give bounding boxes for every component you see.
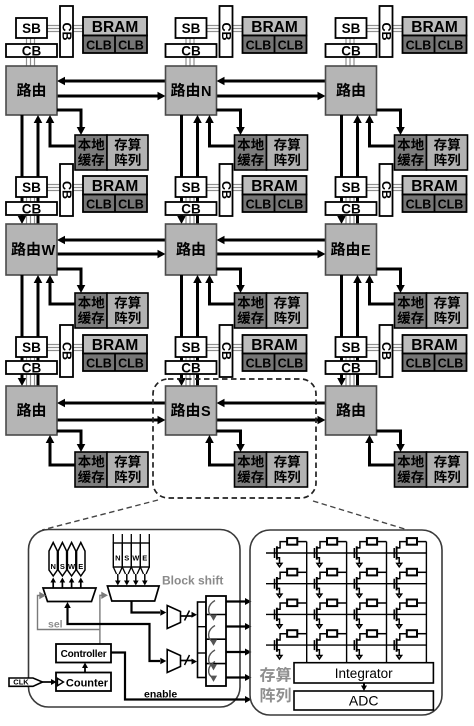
svg-text:CLK: CLK: [13, 678, 29, 687]
svg-text:Controller: Controller: [61, 649, 107, 660]
connection box CB vertical col1 row3: [60, 325, 74, 377]
wire mux1 to port W: [69, 578, 75, 588]
CIM array block col2 row3: [267, 452, 308, 487]
wire shift register output arrow: [226, 674, 252, 681]
CIM array block col2 row2: [267, 293, 308, 328]
svg-text:CB: CB: [60, 22, 74, 40]
CLB blocks col1 row2: [83, 195, 147, 213]
BRAM block col2 row1: [243, 17, 307, 36]
connection box CB horizontal col3 row1: [326, 44, 377, 59]
CIM array block col3 row2: [427, 293, 468, 328]
wire cache-to-router col1 row2: [46, 275, 75, 304]
switch box SB col3 row3: [336, 337, 367, 357]
svg-text:CB: CB: [341, 44, 361, 59]
wire mux1 to port N: [50, 578, 56, 588]
RRAM resistor R33: [367, 600, 387, 607]
CLB blocks col3 row3: [403, 354, 467, 372]
connection box CB vertical col2 row1: [219, 6, 233, 57]
wire shift register output arrow: [226, 649, 252, 656]
connection box CB horizontal col3 row3: [326, 361, 377, 376]
svg-text:CB: CB: [379, 342, 393, 360]
wire vertical link col1 row2 x+22 (down into router): [18, 275, 27, 386]
RRAM resistor R13: [367, 538, 387, 545]
svg-text:BRAM: BRAM: [92, 337, 139, 354]
svg-text:BRAM: BRAM: [92, 19, 139, 36]
svg-text:CB: CB: [341, 202, 361, 217]
switch box SB col1 row3: [16, 337, 47, 357]
wire cache-to-router col3 row2: [365, 275, 394, 304]
wire vertical link col1 row1 x+22 (down into router): [18, 115, 27, 224]
wire mux B to shift register (with bus slash): [181, 655, 198, 665]
svg-text:W: W: [132, 554, 140, 563]
CLB blocks col2 row2: [243, 195, 307, 213]
wire vertical link col3 row1 x+38 (up into router above): [353, 115, 362, 224]
svg-text:CLB: CLB: [406, 39, 432, 53]
dashed highlight box around router S tile: [153, 379, 316, 498]
svg-text:E: E: [361, 243, 371, 259]
svg-text:CLB: CLB: [246, 39, 272, 53]
shift curved arrows: [209, 601, 216, 681]
connection box CB vertical col2 row2: [219, 164, 233, 216]
svg-text:BRAM: BRAM: [251, 178, 298, 195]
switch box SB col1 row1: [16, 18, 47, 38]
wire mux A to shift register (with bus slash): [181, 611, 198, 621]
svg-text:CB: CB: [219, 181, 233, 199]
svg-text:BRAM: BRAM: [411, 19, 458, 36]
local cache block col2 row2: [235, 293, 267, 328]
wire router-router right arrow row2: [57, 250, 166, 259]
svg-text:CB: CB: [22, 361, 42, 376]
wire bundle SB-CB-router col2 row2: [186, 185, 243, 225]
svg-text:enable: enable: [144, 689, 177, 701]
RRAM resistor R21: [287, 569, 307, 576]
connection box CB horizontal col2 row1: [166, 44, 217, 59]
svg-text:CB: CB: [379, 22, 393, 40]
svg-text:CB: CB: [219, 22, 233, 40]
transistor Q41: [275, 634, 288, 659]
CLB blocks col2 row1: [243, 36, 307, 54]
shift register input column: [198, 602, 207, 678]
wire counter to controller: [82, 663, 88, 673]
CIM array block col1 row3: [107, 452, 148, 487]
svg-text:CLB: CLB: [278, 357, 304, 371]
output port E (pentagon): [77, 543, 85, 577]
counter box: [56, 673, 111, 692]
transistor Q42: [314, 634, 327, 659]
wire integrator to ADC: [361, 683, 367, 691]
transistor Q21: [275, 572, 288, 597]
svg-text:SB: SB: [342, 21, 361, 36]
output port N (pentagon): [49, 543, 57, 577]
wire vertical link col1 row1 x+38 (up into router above): [34, 115, 43, 224]
switch box SB col2 row2: [176, 177, 207, 197]
transistor Q33: [354, 603, 367, 628]
svg-text:S: S: [124, 554, 129, 563]
transistor Q12: [314, 542, 327, 567]
svg-text:CLB: CLB: [86, 357, 112, 371]
transistor Q13: [354, 542, 367, 567]
svg-text:CLB: CLB: [438, 39, 464, 53]
connection box CB vertical col3 row1: [379, 6, 393, 57]
svg-text:CLB: CLB: [118, 39, 144, 53]
RRAM resistor R41: [287, 630, 307, 637]
svg-text:CB: CB: [22, 202, 42, 217]
wire vertical link col2 row1 x+22 (down into router): [177, 115, 186, 224]
transistor Q22: [314, 572, 327, 597]
svg-text:CB: CB: [60, 342, 74, 360]
input port S (box): [122, 543, 131, 567]
svg-text:BRAM: BRAM: [92, 178, 139, 195]
CLB blocks col3 row1: [403, 36, 467, 54]
input port W (box): [131, 543, 140, 567]
svg-text:SB: SB: [22, 340, 41, 355]
svg-text:SB: SB: [342, 340, 361, 355]
wire cache-to-router col2 row1: [205, 115, 234, 146]
svg-text:CB: CB: [379, 181, 393, 199]
wire bundle SB-CB-router col2 row3: [186, 345, 243, 387]
switch box SB col2 row1: [176, 18, 207, 38]
router 路由 col2 row2: [166, 224, 217, 275]
local cache block col1 row1: [75, 135, 107, 170]
svg-text:CB: CB: [181, 361, 201, 376]
connection box CB vertical col3 row2: [379, 164, 393, 216]
switch box SB col3 row1: [336, 18, 367, 38]
wire vertical link col2 row2 x+38 (up into router above): [193, 275, 202, 386]
router 路由 col1 row1: [6, 66, 57, 115]
svg-text:CB: CB: [219, 342, 233, 360]
BRAM block col2 row3: [243, 335, 307, 354]
svg-text:W: W: [68, 562, 76, 571]
RRAM resistor R22: [327, 569, 347, 576]
router-S internal detail box (left): [29, 530, 241, 708]
BRAM block col3 row1: [403, 17, 467, 36]
RRAM resistor R23: [367, 569, 387, 576]
integrator box: [294, 663, 433, 683]
RRAM resistor R14: [407, 538, 427, 545]
dashed expansion line right: [313, 501, 408, 530]
svg-text:Counter: Counter: [66, 677, 109, 689]
svg-text:CLB: CLB: [406, 198, 432, 212]
output port W (pentagon): [67, 543, 76, 577]
wire router-to-cache col2 row2: [217, 269, 245, 293]
connection box CB horizontal col2 row2: [166, 202, 217, 217]
switch box SB col1 row2: [16, 177, 47, 197]
router 路由W col1 row2: [6, 224, 57, 275]
wire vertical link col3 row2 x+22 (down into router): [337, 275, 346, 386]
CIM array block col3 row3: [427, 452, 468, 487]
BRAM block col1 row1: [83, 17, 147, 36]
wire cache-to-router col1 row3: [46, 435, 75, 465]
router 路由S col2 row3: [166, 386, 217, 435]
CLB blocks col1 row1: [83, 36, 147, 54]
svg-text:E: E: [142, 554, 147, 563]
input bus comb lines: [113, 534, 149, 543]
connection box CB horizontal col1 row1: [6, 44, 57, 59]
svg-text:CLB: CLB: [438, 198, 464, 212]
wire router-router left arrow row1: [217, 77, 326, 86]
svg-text:N: N: [115, 554, 120, 563]
svg-text:ADC: ADC: [349, 693, 379, 709]
wire cache-to-router col1 row1: [46, 115, 75, 146]
wire router-to-cache col1 row3: [57, 431, 85, 452]
funnel and arrow into mux2 from N: [113, 567, 122, 586]
svg-text:CLB: CLB: [86, 39, 112, 53]
local cache block col2 row1: [235, 135, 267, 170]
RRAM resistor R24: [407, 569, 427, 576]
wire CLK to counter: [43, 679, 57, 685]
transistor Q14: [394, 542, 407, 567]
wire sel net (gray): [38, 593, 107, 644]
router 路由E col3 row2: [326, 224, 377, 275]
bit lines (columns): [307, 542, 427, 663]
local cache block col3 row2: [395, 293, 427, 328]
svg-text:CLB: CLB: [246, 198, 272, 212]
funnel and arrow into mux2 from W: [131, 567, 140, 586]
svg-text:BRAM: BRAM: [411, 178, 458, 195]
wire router-router left arrow row2: [57, 236, 166, 245]
output mux U1 (trapezoid): [43, 588, 96, 602]
RRAM resistor R12: [327, 538, 347, 545]
svg-text:N: N: [201, 84, 211, 100]
CIM array block col1 row1: [107, 135, 148, 170]
wire router-router right arrow row1: [217, 92, 326, 101]
wire vertical link col1 row2 x+38 (up into router above): [34, 275, 43, 386]
svg-text:CLB: CLB: [438, 357, 464, 371]
CLK tag: [9, 678, 43, 687]
router 路由 col1 row3: [6, 386, 57, 435]
svg-text:Block shift: Block shift: [162, 574, 223, 588]
wire enable net: [111, 653, 252, 704]
RRAM resistor R11: [287, 538, 307, 545]
wire router-to-cache col3 row1: [377, 110, 405, 135]
transistor Q11: [275, 542, 288, 567]
wire router-router left arrow row3: [57, 399, 166, 408]
wire vertical link col3 row2 x+38 (up into router above): [353, 275, 362, 386]
CIM array detail box (right): [250, 530, 442, 715]
connection box CB vertical col2 row3: [219, 325, 233, 377]
RRAM resistor R31: [287, 600, 307, 607]
wire router-router right arrow row3: [57, 416, 166, 425]
CLB blocks col1 row3: [83, 354, 147, 372]
svg-text:CB: CB: [22, 44, 42, 59]
connection box CB horizontal col3 row2: [326, 202, 377, 217]
wire vertical link col3 row1 x+22 (down into router): [337, 115, 346, 224]
controller box: [56, 644, 111, 663]
wire router-router left arrow row2: [217, 236, 326, 245]
BRAM block col3 row2: [403, 176, 467, 195]
BRAM block col1 row2: [83, 176, 147, 195]
connection box CB horizontal col2 row3: [166, 361, 217, 376]
connection box CB vertical col3 row3: [379, 325, 393, 377]
local cache block col2 row3: [235, 452, 267, 487]
wire input-mux output to shift mux A: [132, 601, 167, 616]
transistor Q43: [354, 634, 367, 659]
input port E (box): [140, 543, 149, 567]
router 路由N col2 row1: [166, 66, 217, 115]
wire bundle SB-CB-router col1 row1: [27, 26, 84, 67]
svg-text:CLB: CLB: [118, 198, 144, 212]
CIM array block col2 row1: [267, 135, 308, 170]
svg-text:SB: SB: [182, 180, 201, 195]
svg-text:BRAM: BRAM: [251, 337, 298, 354]
wire bundle SB-CB-router col3 row3: [346, 345, 403, 387]
wire bundle SB-CB-router col1 row3: [27, 345, 84, 387]
wire vertical link col2 row1 x+38 (up into router above): [193, 115, 202, 224]
svg-text:CLB: CLB: [278, 198, 304, 212]
CIM array block col3 row1: [427, 135, 468, 170]
local cache block col1 row3: [75, 452, 107, 487]
wire router-router left arrow row3: [217, 399, 326, 408]
svg-text:S: S: [60, 562, 65, 571]
svg-text:CB: CB: [181, 44, 201, 59]
BRAM block col1 row3: [83, 335, 147, 354]
wire router-to-cache col2 row3: [217, 431, 245, 452]
svg-text:CLB: CLB: [278, 39, 304, 53]
wire bundle SB-CB-router col1 row2: [27, 185, 84, 225]
svg-text:CB: CB: [341, 361, 361, 376]
shift mux B (small trapezoid): [167, 650, 180, 673]
wire cache-to-router col2 row3: [205, 435, 234, 465]
connection box CB horizontal col1 row3: [6, 361, 57, 376]
BRAM block col3 row3: [403, 335, 467, 354]
connection box CB vertical col1 row2: [60, 164, 74, 216]
wire router-to-cache col1 row1: [57, 110, 85, 135]
svg-text:BRAM: BRAM: [411, 337, 458, 354]
funnel and arrow into mux2 from E: [140, 567, 149, 586]
wire router-router right arrow row1: [57, 92, 166, 101]
wire bundle SB-CB-router col3 row1: [346, 26, 403, 67]
svg-text:BRAM: BRAM: [251, 19, 298, 36]
wire shift register output arrow: [226, 598, 252, 605]
word lines (rows): [266, 553, 426, 645]
svg-text:S: S: [201, 404, 211, 420]
svg-text:CB: CB: [181, 202, 201, 217]
transistor Q32: [314, 603, 327, 628]
wire router-router left arrow row1: [57, 77, 166, 86]
router 路由 col3 row3: [326, 386, 377, 435]
wire data feed to output mux and shift mux B: [64, 602, 166, 664]
wire bundle SB-CB-router col2 row1: [186, 26, 243, 67]
svg-text:SB: SB: [22, 180, 41, 195]
svg-text:SB: SB: [22, 21, 41, 36]
svg-text:CB: CB: [60, 181, 74, 199]
RRAM resistor R32: [327, 600, 347, 607]
wire cache-to-router col3 row1: [365, 115, 394, 146]
RRAM resistor R42: [327, 630, 347, 637]
svg-text:Integrator: Integrator: [335, 666, 393, 681]
local cache block col3 row1: [395, 135, 427, 170]
wire cache-to-router col2 row2: [205, 275, 234, 304]
ADC box: [294, 691, 433, 710]
funnel and arrow into mux2 from S: [122, 567, 131, 586]
svg-text:SB: SB: [342, 180, 361, 195]
input mux U2 (trapezoid): [107, 586, 159, 601]
RRAM resistor R34: [407, 600, 427, 607]
wire mux1 to port S: [60, 578, 66, 588]
wire vertical link col2 row2 x+22 (down into router): [177, 275, 186, 386]
wire mux1 to port E: [78, 578, 84, 588]
svg-text:W: W: [42, 243, 56, 259]
input port N (box): [113, 543, 122, 567]
svg-text:sel: sel: [48, 619, 63, 631]
CLB blocks col3 row2: [403, 195, 467, 213]
wire bundle SB-CB-router col3 row2: [346, 185, 403, 225]
transistor Q44: [394, 634, 407, 659]
svg-text:SB: SB: [182, 21, 201, 36]
connection box CB vertical col1 row1: [60, 6, 74, 57]
dashed expansion line left: [42, 500, 158, 530]
svg-text:CLB: CLB: [118, 357, 144, 371]
RRAM resistor R43: [367, 630, 387, 637]
CIM array block col1 row2: [107, 293, 148, 328]
svg-text:N: N: [50, 562, 55, 571]
local cache block col3 row3: [395, 452, 427, 487]
transistor Q31: [275, 603, 288, 628]
wire router-to-cache col1 row2: [57, 269, 85, 293]
svg-text:E: E: [78, 562, 83, 571]
transistor Q34: [394, 603, 407, 628]
transistor Q24: [394, 572, 407, 597]
switch box SB col2 row3: [176, 337, 207, 357]
shift mux A (small trapezoid): [167, 606, 180, 629]
wire router-to-cache col2 row1: [217, 110, 245, 135]
router 路由 col3 row1: [326, 66, 377, 115]
wire cache-to-router col3 row3: [365, 435, 394, 465]
output port S (pentagon): [58, 543, 66, 577]
CIM array label (gray): [260, 667, 291, 703]
BRAM block col2 row2: [243, 176, 307, 195]
svg-text:SB: SB: [182, 340, 201, 355]
svg-text:CLB: CLB: [86, 198, 112, 212]
svg-text:CLB: CLB: [246, 357, 272, 371]
wire router-to-cache col3 row3: [377, 431, 405, 452]
block shift register (4 cells): [206, 596, 226, 686]
local cache block col1 row2: [75, 293, 107, 328]
wire shift register output arrow: [226, 623, 252, 630]
clock input triangle on counter: [58, 678, 64, 685]
CLB blocks col2 row3: [243, 354, 307, 372]
connection box CB horizontal col1 row2: [6, 202, 57, 217]
transistor Q23: [354, 572, 367, 597]
switch box SB col3 row2: [336, 177, 367, 197]
svg-text:CLB: CLB: [406, 357, 432, 371]
RRAM resistor R44: [407, 630, 427, 637]
wire router-router right arrow row2: [217, 250, 326, 259]
wire router-to-cache col3 row2: [377, 269, 405, 293]
wire router-router right arrow row3: [217, 416, 326, 425]
